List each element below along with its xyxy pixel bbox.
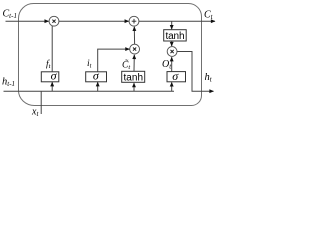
- multiply node (output gate product): [167, 47, 177, 57]
- wire: h_t output path (right then down then exits): [177, 52, 214, 92]
- wire: cell-state input C_{t-1} into multiply node: [6, 20, 49, 22]
- svg-text:ht: ht: [205, 72, 213, 84]
- add node: [129, 16, 139, 26]
- tanh box (candidate): [122, 71, 145, 82]
- wire: output gate up into output multiply node: [171, 57, 173, 71]
- wire: branch of C line down to output tanh box: [171, 21, 173, 29]
- svg-text:Ct: Ct: [204, 10, 214, 22]
- svg-text:it: it: [87, 59, 92, 70]
- sigma box (forget gate): [41, 72, 59, 82]
- multiply node (forget gate product): [49, 16, 59, 26]
- wire: tanh down into output multiply node: [171, 41, 173, 46]
- wire: x_t input rising from below: [40, 91, 42, 114]
- svg-text:xt: xt: [31, 107, 39, 119]
- wire: h line feed up into output sigma box: [171, 82, 173, 91]
- wire: input gate up and right into candidate multiply node: [98, 49, 130, 72]
- wire: forget gate up to multiply node: [51, 26, 53, 72]
- svg-text:ht-1: ht-1: [2, 77, 15, 89]
- sigma box (output gate): [167, 72, 186, 82]
- svg-text:Ot: Ot: [162, 59, 172, 71]
- sigma box (input gate): [86, 72, 107, 82]
- cell body (rounded rectangle): [19, 4, 202, 106]
- tanh box (output squashing): [164, 30, 187, 41]
- wire: h_{t-1} recurrent feed line: [4, 90, 175, 92]
- wire: h line feed up into forget sigma box: [51, 82, 53, 91]
- wire: multiply node to add node: [59, 20, 129, 22]
- wire: candidate product up into add node: [133, 27, 135, 44]
- svg-text:tanh: tanh: [166, 31, 185, 42]
- wire: h line feed up into input sigma box: [97, 82, 99, 91]
- wire: h line feed up into candidate tanh box: [133, 83, 135, 91]
- wire: add node to C_t output arrow: [139, 20, 215, 22]
- svg-text:C̃t: C̃t: [122, 58, 130, 71]
- multiply node (input x candidate): [130, 44, 140, 54]
- svg-text:Ct-1: Ct-1: [3, 9, 17, 21]
- svg-text:tanh: tanh: [124, 73, 144, 84]
- wire: candidate tanh up into multiply node: [133, 55, 135, 71]
